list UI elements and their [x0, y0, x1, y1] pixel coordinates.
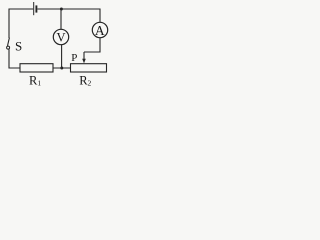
node: top junction of voltmeter branch	[60, 8, 63, 11]
battery B1 short thick plate	[35, 5, 37, 12]
wire: top from battery to top-right corner down to ammeter	[37, 9, 100, 22]
svg-text:R2: R2	[79, 74, 91, 88]
battery B1 long plate	[33, 2, 35, 15]
svg-text:V: V	[56, 30, 65, 44]
voltmeter V	[53, 29, 68, 44]
svg-text:S: S	[15, 38, 22, 53]
svg-text:R1: R1	[29, 74, 41, 88]
node: bottom junction of voltmeter branch	[60, 67, 63, 70]
resistor R1	[20, 64, 53, 72]
wire: switch down to bottom-left corner and right to R1	[9, 49, 20, 68]
wire: R1 to bottom junction to R2	[53, 67, 71, 69]
switch S	[7, 38, 10, 50]
ammeter A	[92, 22, 107, 38]
rheostat R2	[71, 64, 107, 72]
svg-text:P: P	[71, 52, 77, 64]
wire: voltmeter branch lower to bottom junction	[61, 45, 63, 68]
svg-text:A: A	[95, 23, 105, 38]
wire: ammeter down and left to wiper	[84, 38, 100, 52]
wire: voltmeter branch upper	[60, 9, 62, 29]
wire: left side from battery down to switch	[9, 9, 33, 38]
wiper P arrow of rheostat	[82, 52, 86, 63]
